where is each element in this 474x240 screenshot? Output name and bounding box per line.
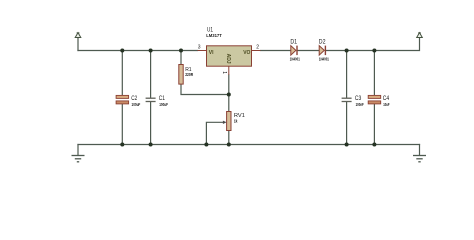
svg-text:D1: D1 [290, 39, 297, 46]
svg-text:3: 3 [198, 45, 201, 51]
svg-text:2: 2 [256, 45, 259, 51]
svg-text:LM317T: LM317T [206, 33, 222, 38]
svg-text:1: 1 [221, 71, 227, 74]
svg-text:D2: D2 [319, 39, 326, 46]
svg-text:100uF: 100uF [132, 102, 141, 107]
svg-text:ADJ: ADJ [225, 54, 231, 64]
svg-text:VO: VO [243, 50, 250, 56]
svg-text:10uF: 10uF [383, 102, 390, 107]
svg-text:100nF: 100nF [356, 102, 364, 107]
svg-text:1N4001: 1N4001 [290, 56, 300, 61]
svg-text:1k: 1k [234, 119, 238, 124]
svg-text:100uF: 100uF [159, 102, 168, 107]
svg-text:1N4001: 1N4001 [319, 56, 329, 61]
svg-text:220R: 220R [185, 72, 193, 77]
svg-text:VI: VI [209, 50, 214, 56]
